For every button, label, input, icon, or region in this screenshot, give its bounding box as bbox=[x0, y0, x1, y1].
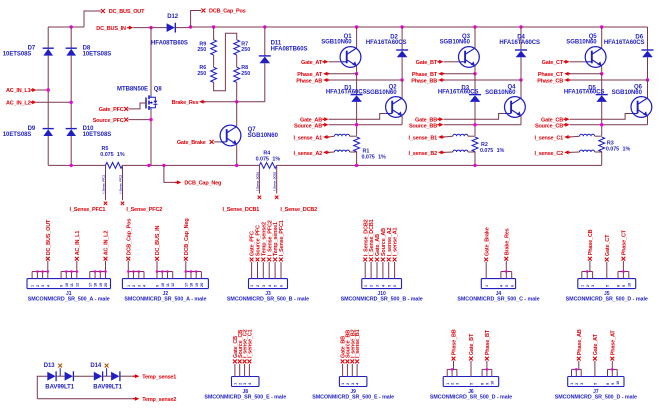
svg-text:3: 3 bbox=[243, 383, 247, 385]
svg-text:Phase_CB: Phase_CB bbox=[537, 78, 563, 84]
wire connector stub Gate_CB bbox=[234, 364, 236, 377]
junction bus+ leg B left bbox=[473, 25, 476, 28]
svg-text:Q8: Q8 bbox=[154, 87, 163, 93]
port Temp_sense2 bbox=[37, 398, 134, 400]
connector J10 SMCONMICRD_SR_500_B bbox=[362, 279, 402, 289]
svg-text:AC_IN_L2: AC_IN_L2 bbox=[6, 101, 31, 107]
svg-text:SGB10N60: SGB10N60 bbox=[612, 90, 643, 96]
connector J8 SMCONMICRD_SR_500_E bbox=[232, 377, 260, 387]
svg-text:DCB_Cap_Pos: DCB_Cap_Pos bbox=[209, 9, 246, 15]
svg-text:AC_IN_L1: AC_IN_L1 bbox=[6, 88, 31, 94]
wire connector stub Gate_CT bbox=[606, 262, 608, 279]
wire pin group bus DC_BUS_IN bbox=[156, 272, 158, 279]
svg-text:3: 3 bbox=[591, 285, 595, 287]
diode D11 HFA08TB60S bbox=[264, 27, 266, 56]
junction Q8 drain at DC_BUS_IN bbox=[149, 26, 152, 29]
svg-text:I_Sense_PFC2: I_Sense_PFC2 bbox=[126, 207, 162, 213]
svg-text:Phase_CT: Phase_CT bbox=[622, 229, 628, 255]
port I_sense_C1 (connector) bbox=[248, 360, 252, 364]
svg-text:D9: D9 bbox=[28, 126, 36, 132]
svg-text:Source_CB: Source_CB bbox=[535, 123, 563, 129]
port Source_BB (connector) bbox=[346, 360, 350, 364]
diode D5 HFA16TA60CS lower freewheel leg C bbox=[601, 74, 603, 95]
svg-text:D13: D13 bbox=[44, 363, 56, 369]
svg-text:BAV99LT1: BAV99LT1 bbox=[93, 384, 122, 390]
connector J2 SMCONMICRD_SR_500_A bbox=[122, 279, 208, 289]
transistor Q2 SGB10N60 bottom IGBT leg A bbox=[401, 80, 403, 98]
connector J1 SMCONMICRD_SR_500_A bbox=[27, 279, 111, 289]
port AC_IN_L2 (connector) bbox=[104, 257, 108, 261]
resistor R3 0.075 1% leg C bbox=[599, 137, 605, 152]
junction source/emitter leg C bbox=[600, 123, 603, 126]
wire connector stub Source_BB bbox=[346, 364, 348, 377]
svg-text:5: 5 bbox=[505, 285, 509, 287]
port Phase_AT (connector) bbox=[610, 357, 614, 361]
svg-text:11: 11 bbox=[166, 283, 170, 287]
svg-text:I_sense_A2: I_sense_A2 bbox=[294, 151, 323, 157]
transistor Q7 SGB10N60 brake IGBT bbox=[236, 102, 238, 127]
port I_Sense_DCB1 (connector) bbox=[369, 258, 373, 262]
svg-text:SGB10N60: SGB10N60 bbox=[366, 90, 397, 96]
svg-text:5: 5 bbox=[274, 285, 278, 287]
svg-text:DC_BUS_IN: DC_BUS_IN bbox=[96, 26, 126, 32]
port I_sense_A1 (connector) bbox=[393, 258, 397, 262]
port Phase_BT (connector) bbox=[485, 357, 489, 361]
svg-text:250: 250 bbox=[197, 71, 206, 77]
junction bus x264.8 bbox=[263, 25, 266, 28]
svg-text:2: 2 bbox=[346, 383, 350, 385]
svg-text:SMCONMICRD_SR_500_D - male: SMCONMICRD_SR_500_D - male bbox=[566, 297, 648, 303]
svg-text:SMCONMICRD_SR_500_C - male: SMCONMICRD_SR_500_C - male bbox=[457, 297, 539, 303]
port I_Sense_PFC1 (connector) bbox=[279, 258, 283, 262]
diode D1 HFA16TA60CS lower freewheel leg A bbox=[356, 74, 358, 95]
svg-text:Brake_Res: Brake_Res bbox=[504, 228, 510, 255]
port I_Sense_PFC2 bbox=[121, 202, 124, 205]
svg-text:HFA16TA60CS: HFA16TA60CS bbox=[564, 90, 605, 96]
svg-text:1: 1 bbox=[31, 285, 35, 287]
resistor R2 0.075 1% leg B bbox=[472, 137, 478, 152]
svg-text:I_Sense_DCB2: I_Sense_DCB2 bbox=[273, 171, 277, 191]
transistor Q4 SGB10N60 bottom IGBT leg B bbox=[520, 80, 522, 98]
port Gate_CT (connector) bbox=[605, 258, 609, 262]
svg-text:I_Sense_DCB2: I_Sense_DCB2 bbox=[280, 207, 317, 213]
svg-text:5: 5 bbox=[593, 383, 597, 385]
no-connect D14 center tap bbox=[105, 364, 109, 368]
port Source_PFC (connector) bbox=[256, 258, 260, 262]
svg-text:BAV99LT1: BAV99LT1 bbox=[45, 384, 74, 390]
resistor R7 250 bbox=[234, 40, 240, 55]
wire connector stub I_sense_A2 bbox=[388, 262, 390, 279]
port DC_BUS_IN (connector) bbox=[155, 257, 159, 261]
svg-text:20: 20 bbox=[200, 283, 204, 287]
wire pin group bus DCB_Cap_Neg bbox=[185, 272, 187, 279]
wire R2 to bus- bbox=[474, 152, 476, 166]
wire connector stub I_sense_C1 bbox=[248, 364, 250, 377]
wire pin group bus Phase_CB bbox=[581, 272, 583, 279]
wire pin group bus DCB_Cap_Pos bbox=[127, 272, 129, 279]
transistor Q1 SGB10N60 top IGBT leg A bbox=[356, 27, 358, 48]
wire connector stub I_Sense_PFC2 bbox=[268, 262, 270, 279]
svg-text:Gate_CT: Gate_CT bbox=[605, 234, 611, 256]
svg-text:10: 10 bbox=[161, 283, 165, 287]
svg-text:5: 5 bbox=[605, 285, 609, 287]
wire bridge right column mid bbox=[70, 56, 72, 129]
svg-text:SGB10N60: SGB10N60 bbox=[248, 133, 279, 139]
port I_Sense_PFC1 bbox=[104, 202, 107, 205]
svg-text:3: 3 bbox=[376, 285, 380, 287]
svg-text:3: 3 bbox=[455, 383, 459, 385]
svg-text:12: 12 bbox=[75, 283, 79, 287]
diode D4 HFA16TA60CS upper freewheel leg B bbox=[520, 27, 522, 50]
svg-text:0.075: 0.075 bbox=[256, 157, 269, 163]
wire Q1 emitter to phase node bbox=[356, 66, 358, 74]
svg-text:I_sense_C2: I_sense_C2 bbox=[535, 151, 564, 157]
svg-text:I_sense_B1: I_sense_B1 bbox=[409, 136, 438, 142]
svg-text:17: 17 bbox=[184, 283, 188, 287]
wire Q5 emitter to phase node bbox=[601, 66, 603, 74]
connector J4 SMCONMICRD_SR_500_C bbox=[481, 279, 515, 289]
svg-text:Phase_BB: Phase_BB bbox=[411, 78, 437, 84]
svg-text:HFA16TA60CS: HFA16TA60CS bbox=[604, 40, 645, 46]
wire R5 sense stub 2 bbox=[122, 165, 124, 200]
svg-text:2: 2 bbox=[238, 383, 242, 385]
svg-text:0.075: 0.075 bbox=[480, 148, 493, 154]
svg-text:2: 2 bbox=[36, 285, 40, 287]
svg-text:D7: D7 bbox=[28, 46, 36, 52]
no-connect D13 center tap bbox=[58, 364, 62, 368]
port Temp_sense2 (connector) bbox=[261, 258, 265, 262]
junction bus- x236.7 bbox=[235, 164, 238, 167]
svg-text:10ETS08S: 10ETS08S bbox=[3, 52, 32, 58]
diode D8 10ETS08S bbox=[70, 27, 72, 48]
svg-text:10ETS08S: 10ETS08S bbox=[83, 52, 112, 58]
wire Q2 emitter bbox=[401, 116, 403, 125]
svg-text:Source_PFC: Source_PFC bbox=[93, 118, 124, 124]
svg-text:Phase_CB: Phase_CB bbox=[588, 229, 594, 255]
svg-text:HFA08TB60S: HFA08TB60S bbox=[151, 40, 188, 46]
junction bus- x163.9 bbox=[162, 164, 165, 167]
wire pin group bus Phase_BB bbox=[446, 369, 448, 376]
svg-text:SMCONMICRD_SR_500_D - male: SMCONMICRD_SR_500_D - male bbox=[555, 394, 637, 400]
diode D10 10ETS08S bbox=[66, 129, 76, 136]
diode D12 HFA08TB60S bbox=[167, 23, 175, 32]
port I_Sense_DCB2 (connector) bbox=[363, 258, 367, 262]
port Gate_BT (connector) bbox=[469, 357, 473, 361]
wire R4 sense stub 2 bbox=[276, 165, 278, 193]
svg-text:I_sense_B1: I_sense_B1 bbox=[355, 329, 361, 358]
svg-text:D10: D10 bbox=[83, 126, 95, 132]
svg-text:6: 6 bbox=[510, 285, 514, 287]
resistor R4 0.075 1% shunt bbox=[259, 163, 276, 169]
wire connector stub Source_CB bbox=[239, 364, 241, 377]
svg-text:19: 19 bbox=[99, 283, 103, 287]
wire connector stub I_sense_A1 bbox=[394, 262, 396, 279]
port I_sense_B2 (connector) bbox=[350, 360, 354, 364]
svg-text:HFA16TA60CS: HFA16TA60CS bbox=[326, 90, 367, 96]
svg-text:DCB_Cap_Pos: DCB_Cap_Pos bbox=[126, 219, 132, 256]
junction bus- x148.9 bbox=[147, 164, 150, 167]
svg-text:Temp_sense1: Temp_sense1 bbox=[142, 374, 176, 380]
svg-text:DCB_Cap_Neg: DCB_Cap_Neg bbox=[184, 181, 221, 187]
wire R8 bottom to brake node bbox=[236, 82, 238, 101]
svg-text:I_Sense_PFC1: I_Sense_PFC1 bbox=[101, 174, 105, 193]
wire R5 sense stub 1 bbox=[105, 165, 107, 200]
junction source/emitter leg B bbox=[473, 123, 476, 126]
port I_Sense_DCB1 bbox=[258, 196, 261, 199]
svg-text:3: 3 bbox=[580, 383, 584, 385]
junction bus- leg B bbox=[473, 164, 476, 167]
port I_Sense_DCB2 bbox=[275, 196, 278, 199]
svg-text:2: 2 bbox=[256, 285, 260, 287]
wire Q6 emitter bbox=[647, 116, 649, 125]
svg-text:250: 250 bbox=[197, 47, 206, 53]
svg-text:Phase_AT: Phase_AT bbox=[610, 330, 616, 356]
wire pin group bus Brake_Res bbox=[500, 272, 502, 279]
svg-text:1%: 1% bbox=[623, 146, 631, 152]
junction brake node bbox=[235, 100, 238, 103]
port Source_CB (connector) bbox=[238, 360, 242, 364]
port Gate_Brake (connector) bbox=[484, 258, 488, 262]
svg-text:1: 1 bbox=[580, 285, 584, 287]
svg-text:9: 9 bbox=[611, 383, 615, 385]
transistor Q6 SGB10N60 bottom IGBT leg C bbox=[647, 80, 649, 98]
svg-text:Phase_CT: Phase_CT bbox=[538, 72, 564, 78]
svg-text:Phase_AB: Phase_AB bbox=[296, 78, 322, 84]
svg-text:Gate_AT: Gate_AT bbox=[301, 60, 323, 66]
connector J9 SMCONMICRD_SR_500_E bbox=[339, 377, 367, 387]
diode D3 HFA16TA60CS lower freewheel leg B bbox=[474, 74, 476, 95]
svg-text:0.075: 0.075 bbox=[362, 154, 375, 160]
svg-text:DC_BUS_OUT: DC_BUS_OUT bbox=[46, 219, 52, 255]
svg-text:8: 8 bbox=[606, 383, 610, 385]
wire pin group bus AC_IN_L2 bbox=[89, 272, 91, 279]
connector J6 SMCONMICRD_SR_500_D bbox=[443, 377, 499, 387]
junction bus+ leg A right bbox=[400, 25, 403, 28]
svg-text:I_sense_B2: I_sense_B2 bbox=[409, 151, 438, 157]
diode D7 10ETS08S bbox=[47, 27, 49, 48]
junction source/emitter leg A bbox=[355, 123, 358, 126]
port I_sense_C2 (connector) bbox=[243, 360, 247, 364]
svg-text:SMCONMICRD_SR_500_A - male: SMCONMICRD_SR_500_A - male bbox=[28, 297, 110, 303]
svg-text:19: 19 bbox=[195, 283, 199, 287]
svg-text:Phase_AT: Phase_AT bbox=[297, 72, 323, 78]
svg-text:3: 3 bbox=[41, 285, 45, 287]
wire connector stub I_sense_B1 bbox=[356, 364, 358, 377]
svg-text:250: 250 bbox=[241, 47, 250, 53]
junction phase C bottom bbox=[646, 78, 649, 81]
svg-text:10: 10 bbox=[65, 283, 69, 287]
diode D14 BAV99LT1 bbox=[74, 375, 94, 377]
svg-text:Gate_AT: Gate_AT bbox=[593, 333, 599, 355]
svg-text:SGB10N60: SGB10N60 bbox=[566, 40, 597, 46]
port DCB_Cap_Pos bbox=[191, 11, 202, 28]
port Phase_CT (connector) bbox=[622, 257, 626, 261]
port Gate_AB (connector) bbox=[375, 258, 379, 262]
junction Q8 source bbox=[149, 118, 152, 121]
wire connector stub Gate_AB bbox=[376, 262, 378, 279]
svg-text:10: 10 bbox=[490, 381, 494, 385]
port Brake_Res (connector) bbox=[504, 257, 508, 261]
port Gate_AT (connector) bbox=[593, 357, 597, 361]
svg-text:1: 1 bbox=[485, 285, 489, 287]
wire connector stub I_Sense_DCB2 bbox=[364, 262, 366, 279]
svg-text:Gate_BT: Gate_BT bbox=[469, 333, 475, 355]
connector J7 SMCONMICRD_SR_500_D bbox=[568, 377, 624, 387]
svg-text:SMCONMICRD_SR_500_A - male: SMCONMICRD_SR_500_A - male bbox=[124, 297, 206, 303]
svg-text:Source_BB: Source_BB bbox=[409, 123, 437, 129]
wire bridge left column mid bbox=[47, 56, 49, 129]
svg-text:18: 18 bbox=[190, 283, 194, 287]
svg-text:Phase_AB: Phase_AB bbox=[577, 329, 583, 355]
svg-text:Phase_BB: Phase_BB bbox=[452, 329, 458, 355]
svg-text:8: 8 bbox=[481, 383, 485, 385]
junction bus- x71 bbox=[70, 164, 73, 167]
wire connector stub Gate_BB bbox=[342, 364, 344, 377]
port Phase_CB (connector) bbox=[588, 257, 592, 261]
svg-text:2: 2 bbox=[586, 285, 590, 287]
port DC_BUS_OUT bbox=[101, 9, 105, 13]
svg-text:1: 1 bbox=[341, 383, 345, 385]
junction bus+ leg B right bbox=[519, 25, 522, 28]
wire pin group bus Phase_CT bbox=[617, 272, 619, 279]
wire D12 cathode to bus bbox=[176, 27, 191, 29]
svg-text:3: 3 bbox=[137, 285, 141, 287]
wire Q8 source down to bus bbox=[150, 110, 152, 165]
junction bus+ leg A left bbox=[355, 25, 358, 28]
svg-text:0.075: 0.075 bbox=[606, 146, 619, 152]
port Phase_BB (connector) bbox=[452, 357, 456, 361]
port Phase_AB (connector) bbox=[577, 357, 581, 361]
svg-text:3: 3 bbox=[262, 285, 266, 287]
svg-text:Gate_PFC: Gate_PFC bbox=[99, 107, 124, 113]
port Temp_sense1 (connector) bbox=[273, 258, 277, 262]
connector J3 SMCONMICRD_SR_500_B bbox=[249, 279, 288, 289]
svg-text:10ETS08S: 10ETS08S bbox=[83, 132, 112, 138]
junction phase B top bbox=[473, 72, 476, 75]
diode D6 HFA16TA60CS upper freewheel leg C bbox=[647, 27, 649, 50]
wire pin group bus AC_IN_L1 bbox=[60, 272, 62, 279]
diode D2 HFA16TA60CS upper freewheel leg A bbox=[401, 27, 403, 50]
svg-text:DC_BUS_IN: DC_BUS_IN bbox=[155, 226, 161, 256]
svg-text:1: 1 bbox=[364, 285, 368, 287]
svg-text:I_sense_A1: I_sense_A1 bbox=[393, 228, 399, 257]
svg-text:Phase_BT: Phase_BT bbox=[485, 329, 491, 355]
junction bus+ leg C left bbox=[600, 25, 603, 28]
svg-text:I_Sense_DCB1: I_Sense_DCB1 bbox=[255, 171, 259, 191]
wire connector stub I_sense_C2 bbox=[244, 364, 246, 377]
svg-text:SMCONMICRD_SR_500_D - male: SMCONMICRD_SR_500_D - male bbox=[430, 394, 512, 400]
diode D13 BAV99LT1 bbox=[37, 376, 47, 399]
port DC_BUS_OUT (connector) bbox=[46, 257, 50, 261]
connector J5 SMCONMICRD_SR_500_D bbox=[578, 279, 636, 289]
svg-text:9: 9 bbox=[622, 285, 626, 287]
transistor Q3 SGB10N60 top IGBT leg B bbox=[474, 27, 476, 48]
svg-text:Gate_BT: Gate_BT bbox=[416, 60, 438, 66]
wire connector stub Gate_BT bbox=[470, 361, 472, 377]
svg-text:5: 5 bbox=[470, 383, 474, 385]
svg-text:D8: D8 bbox=[83, 46, 91, 52]
svg-text:SGB10N60: SGB10N60 bbox=[440, 40, 471, 46]
svg-text:D12: D12 bbox=[167, 14, 179, 20]
wire R3 to bus- bbox=[601, 152, 603, 166]
svg-text:10ETS08S: 10ETS08S bbox=[3, 132, 32, 138]
port DCB_Cap_Pos (connector) bbox=[126, 257, 130, 261]
wire connector stub I_sense_B2 bbox=[351, 364, 353, 377]
junction phase B bottom bbox=[519, 78, 522, 81]
svg-text:SMCONMICRD_SR_500_E - male: SMCONMICRD_SR_500_E - male bbox=[312, 394, 394, 400]
svg-text:9: 9 bbox=[156, 285, 160, 287]
mosfet Q8 MTB8N50E bbox=[150, 27, 152, 96]
port DCB_Cap_Neg (connector) bbox=[184, 257, 188, 261]
wire R1 to bus- bbox=[356, 152, 358, 166]
svg-text:I_sense_C1: I_sense_C1 bbox=[535, 136, 564, 142]
wire Q3 emitter to phase node bbox=[474, 66, 476, 74]
resistor R5 0.075 1% shunt bbox=[106, 163, 123, 169]
resistor R1 0.075 1% leg A bbox=[354, 137, 360, 152]
junction bridge top bbox=[70, 25, 73, 28]
svg-text:2: 2 bbox=[451, 383, 455, 385]
svg-text:Temp_sense2: Temp_sense2 bbox=[142, 397, 176, 403]
svg-text:1: 1 bbox=[570, 383, 574, 385]
junction phase C top bbox=[600, 72, 603, 75]
resistor R8 250 bbox=[236, 55, 238, 67]
wire connector stub Gate_Brake bbox=[485, 262, 487, 279]
port Source_AB (connector) bbox=[381, 258, 385, 262]
svg-text:SMCONMICRD_SR_500_E - male: SMCONMICRD_SR_500_E - male bbox=[204, 394, 286, 400]
wire R4 sense stub 1 bbox=[258, 165, 260, 193]
svg-text:1%: 1% bbox=[117, 152, 125, 158]
svg-text:11: 11 bbox=[70, 283, 74, 287]
svg-text:10: 10 bbox=[616, 381, 620, 385]
svg-text:I_Sense_PFC1: I_Sense_PFC1 bbox=[279, 220, 285, 256]
svg-text:250: 250 bbox=[241, 71, 250, 77]
svg-text:R5: R5 bbox=[102, 146, 109, 152]
wire connector stub Gate_AT bbox=[594, 361, 596, 377]
svg-text:Gate_Brake: Gate_Brake bbox=[177, 140, 206, 146]
svg-text:18: 18 bbox=[94, 283, 98, 287]
svg-text:12: 12 bbox=[171, 283, 175, 287]
wire: AC bridge top rail to DC_BUS_OUT port bbox=[48, 26, 84, 28]
wire connector stub Temp_sense2 bbox=[262, 262, 264, 279]
svg-text:HFA16TA60CS: HFA16TA60CS bbox=[438, 90, 479, 96]
svg-text:20: 20 bbox=[104, 283, 108, 287]
wire R6 bottom jog to R7 top bbox=[214, 33, 237, 90]
svg-text:D14: D14 bbox=[90, 363, 102, 369]
svg-text:1: 1 bbox=[127, 285, 131, 287]
wire connector stub I_Sense_PFC1 bbox=[280, 262, 282, 279]
svg-text:1%: 1% bbox=[272, 157, 280, 163]
svg-text:1: 1 bbox=[233, 383, 237, 385]
svg-text:1: 1 bbox=[446, 383, 450, 385]
junction phase A bottom bbox=[400, 78, 403, 81]
svg-text:DC_BUS_OUT: DC_BUS_OUT bbox=[109, 9, 145, 15]
transistor Q5 SGB10N60 top IGBT leg C bbox=[601, 27, 603, 48]
svg-text:Phase_BT: Phase_BT bbox=[412, 72, 438, 78]
svg-text:5: 5 bbox=[387, 285, 391, 287]
svg-text:17: 17 bbox=[88, 283, 92, 287]
svg-text:I_sense_A1: I_sense_A1 bbox=[294, 136, 323, 142]
port Temp_sense1 bbox=[120, 375, 133, 377]
port DCB_Cap_Neg bbox=[164, 165, 176, 182]
svg-text:Q7: Q7 bbox=[248, 127, 257, 133]
svg-text:3: 3 bbox=[351, 383, 355, 385]
wire pin group bus Phase_BT bbox=[481, 369, 483, 376]
wire pin group bus Phase_AB bbox=[571, 369, 573, 376]
svg-text:SGB10N60: SGB10N60 bbox=[321, 40, 352, 46]
svg-text:9: 9 bbox=[60, 285, 64, 287]
port Gate_PFC (connector) bbox=[250, 258, 254, 262]
wire connector stub Gate_PFC bbox=[251, 262, 253, 279]
